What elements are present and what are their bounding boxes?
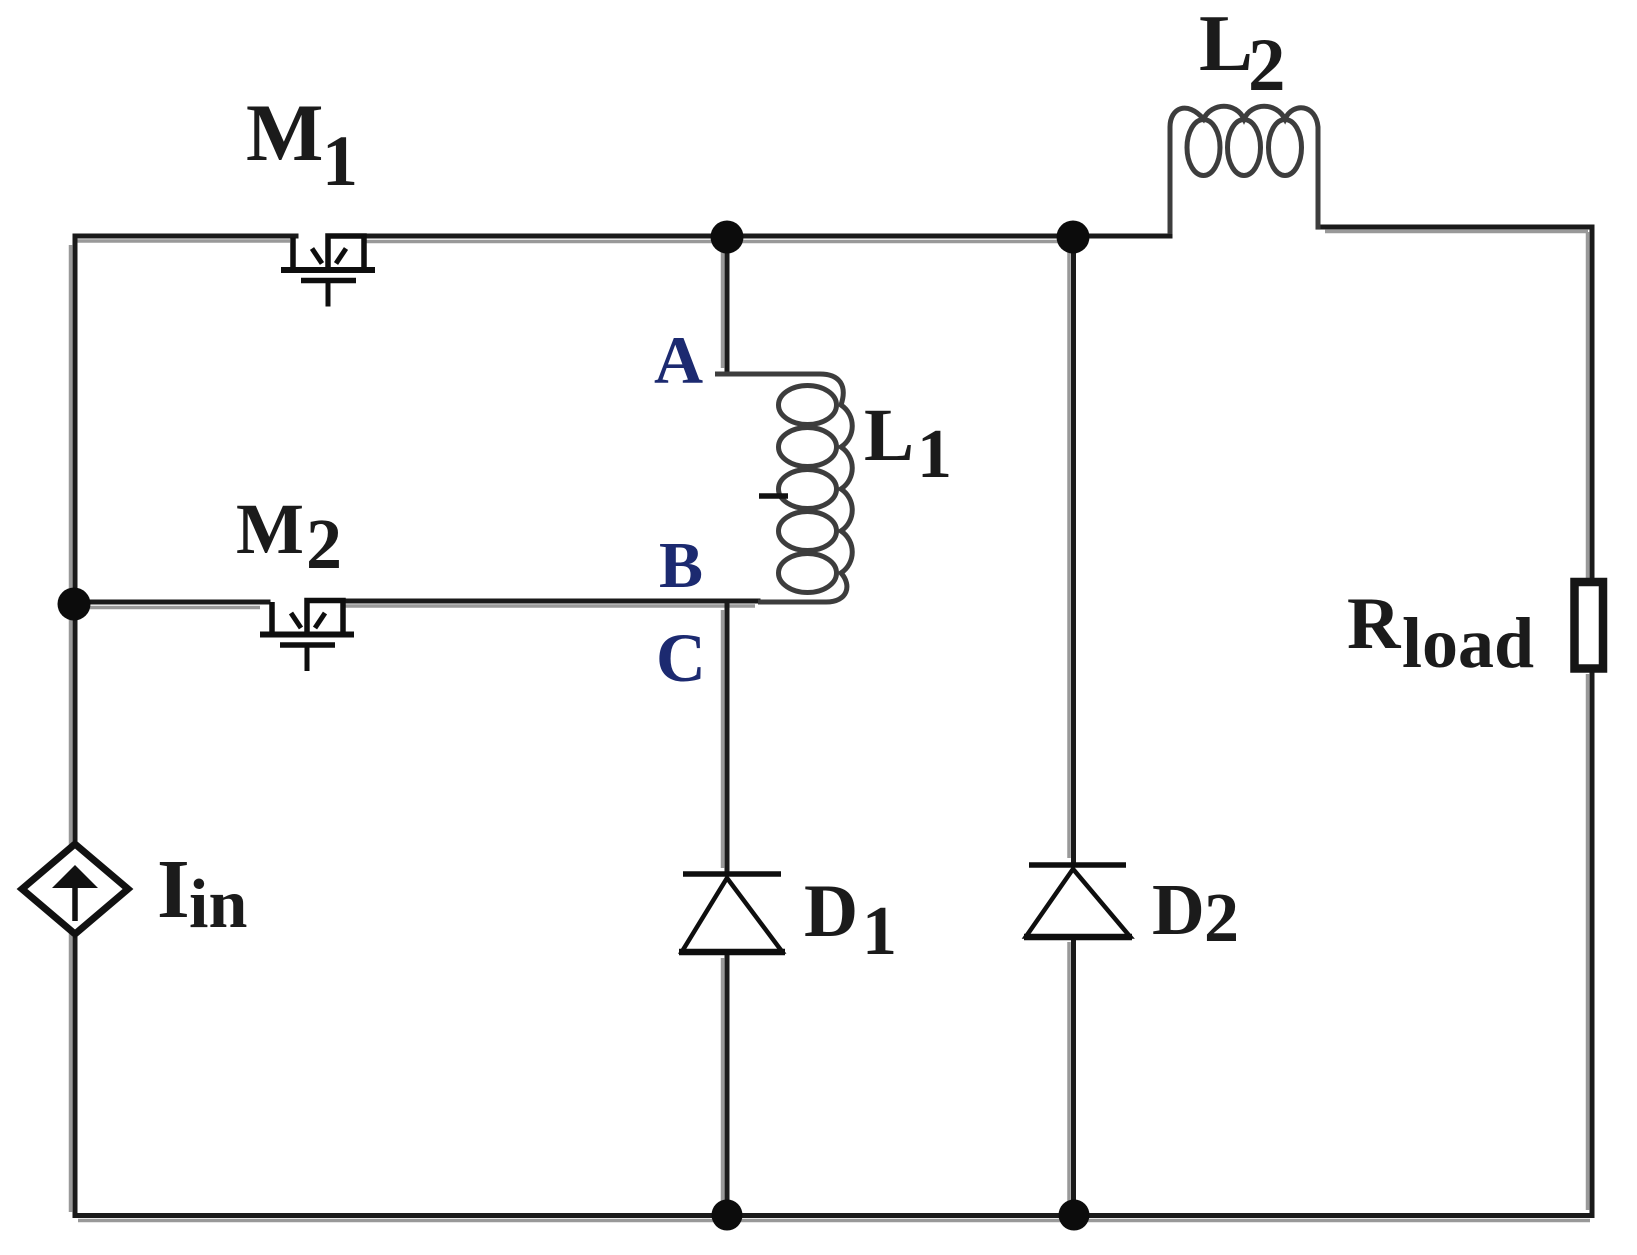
svg-text:2: 2 bbox=[306, 504, 342, 584]
svg-text:R: R bbox=[1347, 583, 1402, 665]
svg-text:2: 2 bbox=[1204, 880, 1239, 957]
svg-text:M: M bbox=[246, 87, 323, 178]
svg-text:load: load bbox=[1402, 603, 1534, 683]
svg-text:B: B bbox=[659, 529, 703, 602]
svg-text:M: M bbox=[236, 489, 304, 569]
svg-text:1: 1 bbox=[917, 416, 952, 493]
svg-text:A: A bbox=[654, 322, 703, 398]
svg-text:2: 2 bbox=[1248, 24, 1286, 107]
svg-text:1: 1 bbox=[322, 121, 358, 201]
svg-text:L: L bbox=[1199, 0, 1253, 88]
svg-text:1: 1 bbox=[862, 893, 897, 970]
svg-text:C: C bbox=[656, 620, 706, 696]
svg-text:I: I bbox=[157, 843, 190, 936]
svg-text:in: in bbox=[189, 866, 247, 943]
svg-text:L: L bbox=[864, 394, 914, 477]
svg-text:D: D bbox=[804, 870, 858, 953]
svg-text:D: D bbox=[1152, 869, 1205, 950]
